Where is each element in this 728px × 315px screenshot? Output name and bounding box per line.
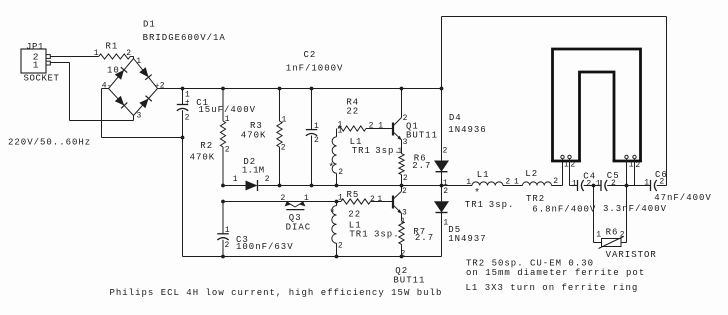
svg-text:1: 1 [338,194,343,203]
pin 2 of right filament [635,161,640,170]
transistor Q1 [393,89,402,141]
pin 2 of R6 [403,174,408,183]
label 220V/50..60Hz [8,138,91,148]
svg-text:47nF/400V: 47nF/400V [654,193,712,203]
diac Q3 [285,201,306,210]
svg-text:3: 3 [403,138,408,147]
resistor R6 [399,140,404,186]
label R7 [413,227,426,237]
svg-text:2: 2 [620,231,625,240]
label 100nF/63V [236,242,294,252]
label Q3 [289,213,302,223]
label 15uF/400V [198,105,256,115]
wire [441,172,443,186]
wire [607,185,650,187]
svg-text:JP1: JP1 [26,42,44,52]
svg-text:1: 1 [282,115,287,124]
svg-text:2: 2 [402,187,407,196]
wire (bottom rail) [183,256,442,258]
capacitor C1 [177,89,188,138]
svg-text:BRIDGE600V/1A: BRIDGE600V/1A [143,33,226,43]
svg-text:1: 1 [377,195,382,204]
svg-text:2: 2 [443,147,448,156]
junction [221,184,225,188]
pin 1 of D2 [233,175,238,184]
junction [181,87,185,91]
svg-text:1N4937: 1N4937 [448,234,486,244]
label Q1 [406,121,419,131]
svg-text:TR2: TR2 [526,194,545,204]
svg-text:2.7: 2.7 [415,233,434,243]
svg-text:R5: R5 [347,190,360,200]
svg-text:2: 2 [403,114,408,123]
svg-text:1.1M: 1.1M [242,166,264,176]
junction [400,87,404,91]
junction [335,255,339,259]
svg-text:2: 2 [185,113,190,122]
svg-text:TR2 50sp. CU-EM 0.30: TR2 50sp. CU-EM 0.30 [466,258,594,268]
pin 2 of varistor [620,231,625,240]
label TR2 [526,194,545,204]
phase mark [328,162,334,174]
svg-text:on 15mm diameter ferrite pot: on 15mm diameter ferrite pot [466,268,645,278]
svg-text:BUT11: BUT11 [406,131,438,141]
pin 2 of Q3 [281,194,286,203]
label R2 [200,141,213,151]
label 10 (R1 value) [107,66,120,76]
pin 2 of R4 [369,121,374,130]
label C4 [583,172,596,182]
pin 1 of Q1 base [378,122,383,131]
svg-text:2: 2 [338,241,343,250]
pin 2 of C5 [611,179,616,188]
svg-text:1: 1 [136,57,141,66]
pin 1 of R4 [338,121,343,130]
svg-text:1nF/1000V: 1nF/1000V [286,63,344,73]
svg-text:3sp.: 3sp. [374,229,400,239]
phase mark [474,187,480,199]
wire [50,63,133,121]
svg-text:1: 1 [378,122,383,131]
label R4 [346,97,359,107]
svg-text:SOCKET: SOCKET [24,74,60,84]
pin 1 of C4 [572,180,577,189]
label D2 [243,157,256,167]
label L1 (lower) [349,220,362,230]
wire (mid rail) [223,185,563,187]
svg-text:22: 22 [346,107,359,117]
pin 1 of R1 [94,49,99,58]
pin 1 of varistor [596,231,601,240]
label L1 (upper) [350,137,363,147]
label 22 (R4) [346,107,359,117]
pin 2 of L2 [553,177,558,186]
svg-text:TR1: TR1 [465,200,484,210]
capacitor C5 [601,180,607,191]
label 1N4936 [448,125,486,135]
label R1 [106,41,119,51]
resistor R7 [399,213,404,256]
label 470K (R2) [190,153,216,163]
varistor R6 [594,186,627,249]
pin 1 of R2 [225,115,230,124]
svg-text:2: 2 [443,187,448,196]
svg-text:1: 1 [596,179,601,188]
svg-text:470K: 470K [190,153,216,163]
svg-text:TR1: TR1 [352,146,371,156]
wire [441,89,443,161]
svg-text:1: 1 [33,59,39,70]
junction node B [625,184,629,188]
wire [570,159,578,186]
pin 2 of D5 [443,187,448,196]
label TR1 (lower) [349,229,368,239]
svg-text:1: 1 [304,194,309,203]
left filament terminals [561,155,571,158]
fluorescent tube (lamp) [551,49,642,162]
pin 1 of L2 [514,177,519,186]
svg-text:2: 2 [225,146,230,155]
svg-text:2.7: 2.7 [412,161,431,171]
pin 1 of D5 [443,218,448,227]
caption Philips ECL [110,288,443,298]
svg-text:1: 1 [564,160,569,169]
wire [584,185,601,187]
resistor R2 [220,89,225,186]
svg-text:D1: D1 [143,19,156,29]
svg-text:2: 2 [401,249,406,258]
label C3 [236,235,249,245]
svg-text:1: 1 [572,180,577,189]
svg-text:100nF/63V: 100nF/63V [236,242,294,252]
svg-text:2: 2 [314,136,319,145]
label C6 [655,170,668,180]
pin 2 of C6 [659,177,664,186]
plus mark of C1 [185,98,190,107]
svg-text:2: 2 [611,179,616,188]
svg-text:2: 2 [369,121,374,130]
svg-text:R1: R1 [106,41,119,51]
right filament terminals [625,155,636,158]
resistor R3 [277,89,282,186]
pin 1 of C1 [185,91,190,100]
svg-text:15uF/400V: 15uF/400V [198,105,256,115]
junction [221,200,225,204]
label 470K (R3) [241,130,267,140]
svg-text:3.3nF/400V: 3.3nF/400V [603,204,667,214]
svg-text:2: 2 [265,175,270,184]
svg-text:1: 1 [629,161,634,170]
label 3sp. (choke) [489,200,515,210]
wire [50,56,98,58]
pin 2 of R3 [281,143,286,152]
caption ferrite pot [466,268,645,278]
label 47nF/400V [654,193,712,203]
svg-text:VARISTOR: VARISTOR [606,250,657,260]
svg-text:1: 1 [225,115,230,124]
pin 1 of D1 [136,57,141,66]
diode D5 [434,201,449,212]
diode D2 [246,180,258,191]
label R6 (varistor) [606,227,619,237]
svg-text:3sp.: 3sp. [489,200,515,210]
pin 1 of D4 [443,179,448,188]
svg-text:DIAC: DIAC [286,223,312,233]
label JP1 [26,42,44,52]
svg-text:1: 1 [401,217,406,226]
junction [221,255,225,259]
svg-text:1: 1 [314,122,319,131]
svg-text:C2: C2 [304,50,317,60]
transformer TR1 upper winding L1 [332,129,336,186]
resistor R5 [341,199,371,204]
svg-text:3: 3 [137,112,142,121]
inductor L2 [523,182,552,186]
label VARISTOR [606,250,657,260]
wire [130,57,133,59]
pin 2 of C1 [185,113,190,122]
svg-text:1: 1 [225,226,230,235]
pin 1 of C5 [596,179,601,188]
label TR1 (upper) [352,146,371,156]
pin 1 of left filament [564,160,569,169]
phase mark [329,208,335,220]
diode D4 [434,161,449,172]
label BUT11 (Q1) [406,131,438,141]
junction [310,87,314,91]
svg-text:L2: L2 [525,169,538,179]
junction [221,87,225,91]
svg-text:1: 1 [397,147,402,156]
pin 1 of R7 [401,217,406,226]
svg-text:22: 22 [348,210,361,220]
svg-text:*: * [328,162,334,174]
svg-text:+: + [155,83,159,91]
svg-text:2: 2 [570,161,575,170]
pin 1 of C2 [314,122,319,131]
label D1 [143,19,156,29]
wire [626,159,628,186]
label 1nF/1000V [286,63,344,73]
label 3sp. (upper) [375,146,401,156]
transformer TR1 lower winding L1 [332,202,337,257]
wire (minus bus) [182,138,184,257]
svg-text:2: 2 [281,143,286,152]
label D5 [448,225,461,235]
svg-text:TR1: TR1 [349,229,368,239]
label 2.7 (R6) [412,161,431,171]
junction [440,184,444,188]
svg-text:2: 2 [505,177,510,186]
pin 1 of R3 [282,115,287,124]
label 1N4937 [448,234,486,244]
svg-text:1: 1 [443,218,448,227]
label R5 [347,190,360,200]
svg-text:6.8nF/400V: 6.8nF/400V [532,204,596,214]
pin 2 of R2 [225,146,230,155]
svg-text:+: + [185,98,190,107]
svg-text:D4: D4 [449,113,462,123]
resistor R1 [99,54,130,59]
svg-text:220V/50..60Hz: 220V/50..60Hz [8,138,91,148]
label BUT11 (Q2) [393,275,425,285]
pin 1 of Q2 base [377,195,382,204]
svg-text:1: 1 [644,179,649,188]
label BRIDGE600V/1A [143,33,226,43]
svg-text:2: 2 [338,168,343,177]
svg-text:L1 3X3 turn on ferrite ring: L1 3X3 turn on ferrite ring [466,283,639,293]
bridge rectifier D1 [109,59,158,116]
svg-text:*: * [474,187,480,199]
resistor R4 [338,126,393,131]
wire [552,159,563,186]
pin 1 of C3 [225,226,230,235]
pin 2 of C3 [225,241,230,250]
pin 3 of D1 [137,112,142,121]
pin 1 of right filament [629,161,634,170]
pin 2 of R5 [370,195,375,204]
svg-text:BUT11: BUT11 [393,275,425,285]
svg-text:R6: R6 [606,227,619,237]
svg-text:1: 1 [233,175,238,184]
junction [278,87,282,91]
svg-text:Q3: Q3 [289,213,302,223]
label SOCKET [24,74,60,84]
pin 1 of upper L1 [338,127,343,136]
pin 2 of choke L1 [505,177,510,186]
wire (diac line) [223,201,393,203]
svg-text:2: 2 [403,174,408,183]
svg-text:-: - [107,83,111,91]
svg-text:1N4936: 1N4936 [448,125,486,135]
pin 2 of D2 [265,175,270,184]
label R6 [414,154,427,164]
pin 2 of D1 [155,81,165,90]
wire (top rail to lamp) [442,17,667,186]
pin 2 of C2 [314,136,319,145]
junction [181,136,185,140]
svg-text:2: 2 [635,161,640,170]
label 3sp. (lower) [374,229,400,239]
pin 2 of Q2 [402,187,407,196]
label 22 (R5) [348,210,361,220]
inductor L1 [472,182,503,186]
caption L1 3X3 [466,283,639,293]
junction [400,255,404,259]
caption TR2 50sp. [466,258,594,268]
label 3.3nF/400V [603,204,667,214]
label C5 [607,171,620,181]
pin 2 of lower L1 [338,241,343,250]
pin 1 of R6 [397,147,402,156]
wire (+ rail) [158,88,442,90]
pin 1 of choke L1 [466,178,471,187]
svg-text:2: 2 [586,179,591,188]
pin 3 of Q2 [402,209,407,218]
pin 1 of C6 [644,179,649,188]
pin 2 of Q1 [403,114,408,123]
wire [441,213,443,257]
label L1 (choke) [477,170,490,180]
pin 2 of R7 [401,249,406,258]
svg-text:2: 2 [281,194,286,203]
svg-text:1: 1 [466,178,471,187]
svg-text:470K: 470K [241,130,267,140]
label C2 [304,50,317,60]
pin 2 of C4 [586,179,591,188]
pin 1 of Q3 [304,194,309,203]
svg-text:1: 1 [514,177,519,186]
capacitor C3 [217,202,228,257]
svg-text:L1: L1 [477,170,490,180]
label 1.1M [242,166,264,176]
svg-text:1: 1 [596,231,601,240]
svg-text:1: 1 [338,121,343,130]
wire [634,159,636,186]
svg-text:2: 2 [659,177,664,186]
svg-text:2: 2 [370,195,375,204]
label Q2 [395,266,408,276]
pin 4 of D1 [102,82,111,91]
label DIAC [286,223,312,233]
capacitor C2 [306,89,317,186]
wire [441,186,443,202]
label C1 [196,98,209,108]
junction [400,184,404,188]
label 6.8nF/400V [532,204,596,214]
capacitor C4 [578,180,584,191]
junction node A [592,184,596,188]
svg-text:*: * [329,208,335,220]
svg-text:2: 2 [225,241,230,250]
junction [440,87,444,91]
wire [102,89,183,138]
junction [310,184,314,188]
pin 2 of left filament [570,161,575,170]
label D4 [449,113,462,123]
svg-text:Philips ECL 4H low current, hi: Philips ECL 4H low current, high efficie… [110,288,443,298]
label TR1 (choke) [465,200,484,210]
capacitor C6 [651,180,657,191]
junction [335,184,339,188]
label R3 [250,121,263,131]
transistor Q2 [393,186,402,214]
pin 2 of R1 [126,49,131,58]
pin 3 of Q1 [403,138,408,147]
pin 2 of D4 [443,147,448,156]
pin 2 of upper L1 [338,168,343,177]
label L2 [525,169,538,179]
label 2.7 (R7) [415,233,434,243]
connector JP1 [21,49,50,73]
svg-text:R2: R2 [200,141,213,151]
pin 1 of R5 [338,194,343,203]
junction [278,184,282,188]
junction [335,200,339,204]
svg-text:1: 1 [94,49,99,58]
svg-text:2: 2 [553,177,558,186]
